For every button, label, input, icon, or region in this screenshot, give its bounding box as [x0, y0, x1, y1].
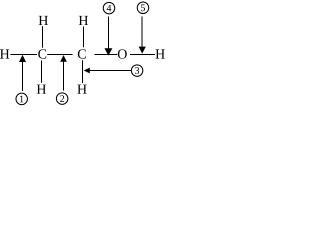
bond C1-C2 [47, 54, 72, 55]
arrow 2 (up, points at C1-C2 bond) [63, 60, 64, 91]
atom H (leftmost, bonded to C1) [0, 49, 9, 58]
arrow 5 (down, points at O-H bond) [142, 17, 143, 48]
atom H above C2 [79, 16, 88, 25]
arrow 4 (down, points at C2-O bond) [108, 17, 109, 50]
bond C2-H top [83, 27, 84, 48]
atom O (hydroxyl oxygen) [118, 49, 127, 58]
bond C1-H top [42, 26, 43, 48]
bond C2-H bottom [82, 60, 83, 83]
atom H below C1 [37, 85, 46, 94]
arrow 1 (up, points at H-C1 bond) [22, 60, 23, 91]
label circled 2 [56, 93, 68, 105]
atom H below C2 [77, 85, 86, 94]
atom H above C1 [39, 16, 48, 25]
arrow 3 (left, points at C2-H bottom bond) [89, 70, 131, 71]
atom C2 (CH2 carbon) [78, 49, 86, 58]
label circled 1 [16, 93, 28, 105]
atom H (rightmost, hydroxyl H) [156, 49, 165, 58]
bond C2-O [95, 54, 118, 55]
label circled 5 [137, 2, 149, 14]
atom C1 (CH3 carbon) [38, 49, 46, 58]
bond C1-H bottom [41, 61, 42, 83]
label circled 4 [103, 2, 115, 14]
label circled 3 [131, 65, 143, 77]
bond H-C1 [10, 54, 37, 55]
bond O-H [130, 54, 155, 55]
